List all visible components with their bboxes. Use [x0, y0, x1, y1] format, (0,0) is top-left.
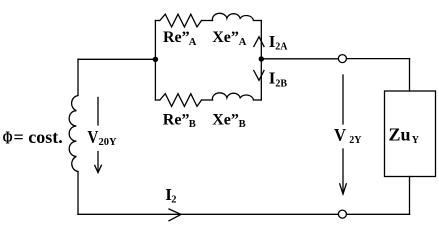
wire terminal to corner: [347, 58, 410, 60]
svg-text:20Y: 20Y: [99, 137, 118, 148]
svg-text:Y: Y: [412, 135, 420, 146]
junction dot right: [259, 56, 264, 61]
wire top branch lead-in: [155, 20, 159, 22]
svg-text:V: V: [334, 125, 346, 145]
terminal circle bottom: [338, 210, 346, 218]
wire down into load box: [409, 59, 411, 91]
svg-text:2A: 2A: [275, 42, 288, 53]
voltage arrow V20Y shaft upper: [97, 98, 99, 126]
inductor Xe"A: [212, 13, 253, 20]
voltage arrow V2Y shaft lower with head: [342, 149, 344, 194]
load box ZuY outline: [385, 91, 436, 177]
current arrow I2B (down caret): [254, 71, 264, 81]
svg-text:A: A: [239, 37, 247, 48]
wire right horizontal to terminal: [261, 58, 338, 60]
voltage arrow V2Y shaft upper: [342, 75, 344, 124]
svg-text:= cost.: = cost.: [14, 127, 63, 147]
svg-text:2: 2: [171, 194, 176, 205]
svg-text:Φ: Φ: [3, 128, 13, 148]
current arrow I2A (up caret): [254, 37, 264, 47]
svg-text:2B: 2B: [275, 78, 287, 89]
current arrow I2 (right caret on bottom wire): [169, 209, 181, 221]
wire bottom horizontal (left of terminal): [78, 213, 338, 215]
wire top-left horizontal: [78, 58, 155, 60]
svg-text:B: B: [239, 119, 246, 130]
wire bottom branch lead-out: [254, 99, 262, 101]
wire load box to bottom: [409, 177, 411, 215]
voltage arrow V20Y shaft lower with head: [97, 152, 99, 173]
wire right branch vertical: [260, 21, 262, 101]
junction dot left: [153, 57, 158, 62]
wire top branch lead-out: [254, 20, 262, 22]
svg-text:2Y: 2Y: [349, 135, 362, 146]
svg-text:Re”: Re”: [163, 29, 190, 46]
resistor Re"A: [160, 14, 202, 27]
svg-text:A: A: [189, 37, 197, 48]
svg-text:B: B: [189, 119, 196, 130]
svg-text:Xe”: Xe”: [212, 29, 239, 46]
resistor Re"B: [160, 94, 202, 107]
wire bottom branch middle: [202, 99, 213, 101]
svg-text:Zu: Zu: [389, 125, 411, 145]
wire top branch middle: [202, 20, 213, 22]
svg-text:Re”: Re”: [163, 111, 190, 128]
terminal circle top: [338, 55, 346, 63]
svg-text:Xe”: Xe”: [212, 111, 239, 128]
wire left vertical upper segment: [77, 59, 79, 95]
wire left branch vertical: [154, 21, 156, 101]
svg-text:V: V: [87, 127, 98, 147]
wire left vertical lower segment: [77, 172, 79, 215]
inductor magnetizing branch (left coil): [69, 96, 78, 172]
inductor Xe"B: [212, 93, 253, 100]
wire bottom horizontal (terminal to load): [347, 213, 410, 215]
wire bottom branch lead-in: [155, 99, 159, 101]
